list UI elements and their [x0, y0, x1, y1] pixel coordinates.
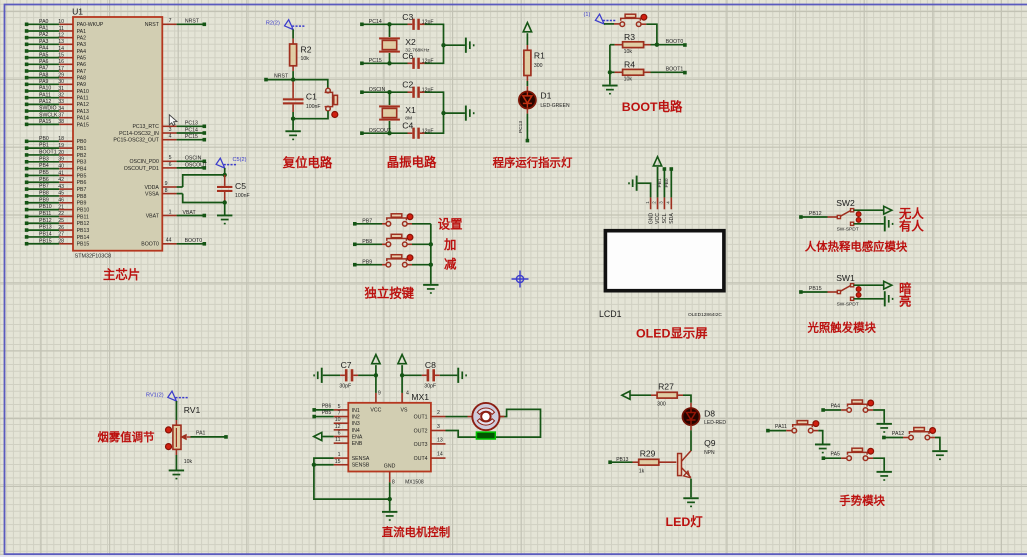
U1 pin 33 PA12 / net PA12 with wire — [25, 99, 89, 108]
svg-text:PA2: PA2 — [39, 32, 49, 38]
node NRST — [264, 74, 295, 82]
svg-text:300: 300 — [657, 402, 666, 408]
U1 pin 31 PA10 / net PA10 with wire — [25, 86, 89, 95]
microcontroller U1 STM32F103C8 body — [72, 6, 162, 259]
wire C1 top — [292, 82, 294, 99]
svg-text:PB11: PB11 — [77, 214, 89, 220]
U1 pin 1 VBAT / net VBAT wire — [146, 209, 206, 219]
wire C6 to bus — [420, 62, 444, 64]
ground PA12 — [932, 450, 947, 460]
svg-text:100nF: 100nF — [306, 104, 321, 110]
label BOOT电路 — [622, 99, 683, 114]
svg-text:PA7: PA7 — [77, 69, 87, 75]
svg-text:37: 37 — [58, 112, 64, 118]
svg-text:PB4: PB4 — [39, 163, 49, 169]
svg-text:PB3: PB3 — [39, 156, 49, 162]
svg-text:VDDA: VDDA — [144, 185, 159, 191]
svg-text:加: 加 — [443, 237, 456, 252]
svg-text:IN1: IN1 — [352, 408, 360, 414]
switch SW1 SW-SPDT — [836, 273, 861, 308]
svg-text:BOOT电路: BOOT电路 — [622, 99, 683, 114]
ground MX1 — [382, 511, 397, 521]
wire C7 to VCC node — [353, 374, 376, 376]
svg-text:PA1: PA1 — [196, 431, 206, 437]
MX1 pin 5 IN1 — [334, 404, 360, 414]
push button PB7 — [386, 214, 413, 226]
label 主芯片 — [103, 267, 140, 282]
svg-text:SW-SPDT: SW-SPDT — [837, 302, 859, 308]
svg-text:PB0: PB0 — [77, 139, 87, 145]
wire C1 bottom to node — [291, 104, 295, 121]
label LED灯 — [666, 514, 704, 529]
svg-text:OSCIN_PD0: OSCIN_PD0 — [129, 159, 159, 165]
svg-text:PB13: PB13 — [39, 225, 52, 231]
label 有人 — [899, 218, 924, 233]
svg-text:PA6: PA6 — [39, 59, 49, 65]
svg-text:PB9: PB9 — [77, 201, 87, 207]
svg-text:PB8: PB8 — [39, 191, 49, 197]
svg-text:3: 3 — [437, 424, 440, 430]
power terminal VCC arrow — [372, 355, 380, 378]
svg-text:3: 3 — [169, 127, 172, 133]
svg-text:PA2: PA2 — [77, 36, 87, 42]
ground PA11 — [815, 444, 830, 454]
wire R4 left — [610, 71, 623, 73]
svg-text:PB14: PB14 — [77, 235, 90, 241]
svg-text:C2: C2 — [402, 80, 413, 90]
U1 pin 13 PA3 / net PA3 with wire — [25, 39, 86, 48]
svg-text:VSSA: VSSA — [145, 192, 159, 198]
svg-text:BOOT0: BOOT0 — [666, 39, 684, 45]
svg-text:5: 5 — [338, 404, 341, 410]
svg-text:PB1: PB1 — [657, 178, 663, 187]
svg-text:46: 46 — [58, 198, 64, 204]
U1 pin 30 PA9 / net PA9 with wire — [25, 79, 86, 88]
svg-text:PA1: PA1 — [39, 26, 49, 32]
U1 pin 26 PB13 / net PB13 with wire — [25, 225, 90, 234]
capacitor C8 30pF — [424, 360, 436, 390]
wire Q9 emitter to ground — [690, 479, 692, 498]
svg-text:PC13: PC13 — [518, 121, 524, 133]
svg-text:R4: R4 — [624, 60, 635, 70]
U1 pin 41 PB5 / net PB5 with wire — [25, 170, 87, 179]
wire node to ground — [292, 119, 294, 131]
MX1 pin 4 VS top — [402, 375, 409, 403]
svg-text:PB1: PB1 — [77, 146, 87, 152]
svg-text:26: 26 — [58, 225, 64, 231]
U1 pin 3 PC14-OSC32_IN / net PC14 wire — [119, 127, 206, 137]
svg-text:OSCOUT_PD1: OSCOUT_PD1 — [124, 166, 159, 172]
svg-text:18: 18 — [58, 136, 64, 142]
net PC13 wire below D1 — [518, 108, 529, 142]
svg-text:PB5: PB5 — [322, 410, 332, 416]
net PB9 wire — [353, 259, 386, 266]
wire PB9 button to bus — [407, 264, 431, 266]
U1 pin 27 PB14 / net PB14 with wire — [25, 232, 90, 241]
svg-text:X1: X1 — [405, 105, 416, 115]
label 亮 — [899, 293, 911, 308]
svg-text:X2: X2 — [405, 37, 416, 47]
svg-text:PA12: PA12 — [77, 102, 89, 108]
svg-text:PB6: PB6 — [322, 403, 332, 409]
svg-text:PB12: PB12 — [77, 221, 90, 227]
svg-text:2: 2 — [437, 410, 440, 416]
svg-text:42: 42 — [58, 177, 64, 183]
net PA4 wire — [821, 403, 847, 412]
svg-text:PC15-OSC32_OUT: PC15-OSC32_OUT — [113, 138, 159, 144]
svg-text:D1: D1 — [540, 91, 551, 101]
svg-text:PB10: PB10 — [77, 208, 90, 214]
resistor R3 10k — [623, 32, 644, 55]
svg-text:PA7: PA7 — [39, 66, 49, 72]
svg-text:1k: 1k — [639, 469, 645, 475]
svg-text:40: 40 — [58, 163, 64, 169]
svg-text:PA11: PA11 — [77, 96, 89, 102]
svg-text:PB5: PB5 — [77, 173, 87, 179]
svg-text:NPN: NPN — [704, 450, 715, 456]
svg-text:27: 27 — [58, 232, 64, 238]
svg-text:IN4: IN4 — [352, 428, 360, 434]
power terminal VS arrow — [398, 355, 406, 378]
svg-text:RV1(2): RV1(2) — [146, 393, 164, 399]
U1 pin 9 VDDA wire to C5 — [144, 175, 224, 191]
svg-text:亮: 亮 — [899, 293, 911, 308]
LED D1 LED-GREEN — [519, 91, 570, 109]
svg-text:BOOT1: BOOT1 — [666, 66, 684, 72]
svg-text:13: 13 — [58, 39, 64, 45]
wire PB7 button to bus — [407, 223, 431, 225]
svg-text:PA10: PA10 — [39, 86, 51, 92]
wire PA4 button to ground — [868, 410, 884, 423]
svg-text:C7: C7 — [341, 360, 352, 370]
svg-text:C5: C5 — [235, 181, 246, 191]
svg-text:PA3: PA3 — [77, 42, 87, 48]
svg-text:BOOT0: BOOT0 — [141, 242, 159, 248]
label 手势模块 — [839, 493, 885, 507]
svg-text:GND: GND — [648, 212, 654, 224]
svg-text:NRST: NRST — [274, 74, 289, 80]
svg-text:SWDIO: SWDIO — [39, 106, 57, 112]
svg-text:PB1: PB1 — [39, 143, 49, 149]
wire R2 bottom to node NRST — [292, 66, 294, 80]
ground PA4 — [877, 423, 892, 433]
svg-text:光照触发模块: 光照触发模块 — [807, 321, 877, 335]
svg-text:PC13: PC13 — [185, 121, 198, 127]
svg-text:复位电路: 复位电路 — [282, 155, 333, 170]
push button PA5 — [847, 448, 874, 460]
svg-text:PA12: PA12 — [892, 431, 904, 437]
svg-text:10k: 10k — [184, 459, 193, 465]
svg-text:SENSB: SENSB — [352, 463, 370, 469]
net PB6 wire to IN1 — [312, 403, 333, 411]
power terminal SW1 upper — [884, 281, 892, 289]
svg-text:PB0: PB0 — [664, 178, 670, 187]
wire to boot button — [604, 23, 620, 25]
U1 pin 4 PC15-OSC32_OUT / net PC15 wire — [113, 134, 206, 144]
U1 pin 12 PA2 / net PA2 with wire — [25, 32, 86, 41]
capacitor C3 12pF — [402, 12, 433, 30]
U1 pin 46 PB9 / net PB9 with wire — [25, 197, 87, 206]
svg-text:PB14: PB14 — [39, 232, 52, 238]
svg-text:34: 34 — [58, 106, 64, 112]
U1 pin 11 PA1 / net PA1 with wire — [25, 26, 86, 35]
U1 pin 5 OSCIN_PD0 / net OSCIN wire — [129, 155, 206, 165]
svg-text:300: 300 — [534, 63, 543, 69]
wire VS node to C8 — [402, 374, 427, 376]
wire R1 to D1 — [526, 76, 528, 93]
svg-text:10: 10 — [58, 19, 64, 25]
svg-text:LED灯: LED灯 — [666, 514, 704, 529]
svg-text:R29: R29 — [640, 449, 656, 459]
U1 pin 34 PA13 / net SWDIO with wire — [25, 106, 89, 115]
svg-text:OUT4: OUT4 — [414, 456, 428, 462]
svg-text:39: 39 — [58, 157, 64, 163]
svg-text:31: 31 — [58, 86, 64, 92]
svg-text:有人: 有人 — [899, 218, 924, 233]
svg-text:SW1: SW1 — [836, 273, 855, 283]
svg-text:PB7: PB7 — [77, 187, 87, 193]
svg-text:15: 15 — [335, 459, 341, 465]
U1 pin 19 PB1 / net PB1 with wire — [25, 143, 87, 152]
svg-text:PA0: PA0 — [39, 19, 49, 25]
wire reset button bottom — [293, 111, 328, 119]
wire PB8 button to bus — [407, 243, 431, 245]
svg-text:4: 4 — [406, 391, 409, 397]
svg-text:12: 12 — [58, 32, 64, 38]
svg-text:程序运行指示灯: 程序运行指示灯 — [493, 156, 573, 170]
MX1 pin 7 IN2 — [334, 411, 360, 421]
U1 pin 8 VSSA wire to C5 — [145, 188, 225, 203]
label 独立按键 — [364, 286, 415, 301]
U1 pin 6 OSCOUT_PD1 / net OSCOUT wire — [124, 162, 208, 172]
U1 pin 40 PB4 / net PB4 with wire — [25, 163, 87, 172]
MX1 pin 14 OUT4 — [414, 452, 446, 463]
wire C2 to bus — [420, 91, 444, 93]
svg-text:PA6: PA6 — [77, 62, 87, 68]
svg-text:11: 11 — [59, 26, 64, 32]
power terminal R27 — [622, 391, 630, 399]
svg-text:PA11: PA11 — [39, 92, 51, 98]
svg-text:PB6: PB6 — [77, 180, 87, 186]
svg-text:43: 43 — [58, 184, 64, 190]
svg-text:PA1: PA1 — [77, 29, 87, 35]
svg-text:PA15: PA15 — [77, 122, 89, 128]
net PC15 wire — [360, 58, 412, 66]
svg-text:PB13: PB13 — [77, 228, 90, 234]
svg-text:烟雾值调节: 烟雾值调节 — [98, 430, 156, 444]
net PA1 wiper wire — [191, 431, 228, 439]
wire boot button to BOOT0 node — [641, 24, 659, 47]
svg-text:OLED12864I2C: OLED12864I2C — [688, 312, 722, 318]
bus wire X2 right — [441, 24, 465, 65]
U1 pin 39 PB3 / net PB3 with wire — [25, 156, 87, 165]
U1 pin 45 PB8 / net PB8 with wire — [25, 191, 87, 200]
svg-text:PB11: PB11 — [39, 211, 51, 217]
svg-text:PB10: PB10 — [39, 204, 52, 210]
svg-text:28: 28 — [58, 239, 64, 245]
U1 pin 28 PB15 / net PB15 with wire — [25, 238, 90, 247]
svg-text:C4: C4 — [402, 121, 413, 131]
wire D8 to Q9 collector — [690, 425, 692, 451]
label 烟雾值调节 — [98, 430, 156, 444]
svg-text:VCC: VCC — [370, 408, 381, 414]
wire power to R27 — [630, 394, 657, 396]
wire RV1 bottom — [175, 449, 177, 469]
svg-text:6: 6 — [338, 431, 341, 437]
LCD1 pin 2 VCC stub — [652, 197, 662, 224]
crystal X1 8M — [379, 92, 416, 133]
svg-text:ENB: ENB — [352, 441, 363, 447]
label 暗 — [899, 281, 912, 296]
wire SW1 upper throw — [854, 284, 884, 286]
MX1 pin 6 ENA — [334, 431, 363, 441]
power terminal (1) — [584, 12, 617, 24]
wire left bus to R4 — [608, 45, 612, 85]
svg-text:PB15: PB15 — [39, 238, 52, 244]
potentiometer RV1 10k — [166, 405, 201, 465]
svg-text:9: 9 — [165, 181, 168, 187]
svg-text:PC14-OSC32_IN: PC14-OSC32_IN — [119, 131, 159, 137]
svg-text:RV1: RV1 — [184, 405, 201, 415]
svg-text:D8: D8 — [704, 409, 715, 419]
svg-text:PB15: PB15 — [77, 242, 90, 248]
push button PB8 — [386, 234, 413, 246]
U1 pin 29 PA8 / net PA8 with wire — [25, 72, 86, 81]
power terminal SW2 upper — [884, 206, 892, 214]
MX1 pin 11 ENB — [334, 437, 363, 447]
wire ENA — [322, 436, 334, 438]
label 设置 — [438, 216, 463, 231]
push button PA11 — [792, 421, 819, 433]
svg-text:38: 38 — [58, 119, 64, 125]
svg-text:SW-SPDT: SW-SPDT — [837, 227, 859, 233]
svg-text:R2(2): R2(2) — [266, 20, 280, 26]
svg-text:100nF: 100nF — [235, 193, 250, 199]
wire R2 top — [292, 30, 294, 45]
MX1 pin 8 GND wire — [390, 472, 395, 511]
svg-text:16: 16 — [58, 59, 64, 65]
svg-text:C1: C1 — [306, 91, 317, 101]
svg-text:29: 29 — [58, 72, 64, 78]
svg-text:SENSA: SENSA — [352, 456, 370, 462]
wire SW2 upper throw — [854, 209, 884, 211]
svg-text:PA9: PA9 — [77, 82, 87, 88]
U1 pin 44 BOOT0 / net BOOT0 wire — [141, 238, 206, 248]
label 直流电机控制 — [382, 525, 450, 539]
svg-text:PB7: PB7 — [39, 184, 49, 190]
LCD1 pin 4 SDA stub — [666, 197, 676, 223]
capacitor C1 100nF — [283, 91, 321, 109]
power terminal up R1 — [523, 23, 531, 32]
ground SW2 lower — [884, 216, 894, 231]
svg-text:41: 41 — [58, 170, 64, 176]
svg-text:VBAT: VBAT — [146, 213, 160, 219]
bus wire X1 right — [441, 91, 465, 134]
power terminal RV1(2) — [146, 391, 189, 401]
svg-text:10k: 10k — [624, 77, 633, 83]
label OLED显示屏 — [636, 326, 708, 340]
MX1 inner labels VCC VS GND — [370, 408, 408, 470]
OLED display LCD1 OLED12864I2C — [599, 231, 724, 319]
wire C4 to bus — [420, 132, 444, 134]
svg-text:1: 1 — [169, 209, 172, 215]
wire node to reset button — [293, 80, 328, 89]
ground PA5 — [877, 471, 892, 481]
svg-text:PA5: PA5 — [39, 52, 49, 58]
svg-text:OLED显示屏: OLED显示屏 — [636, 326, 708, 340]
ground buttons — [423, 284, 438, 294]
svg-text:PA8: PA8 — [39, 72, 49, 78]
wire SW2 lower throw — [854, 223, 884, 225]
svg-text:15: 15 — [58, 52, 64, 58]
svg-text:PB8: PB8 — [77, 194, 87, 200]
ground reset circuit — [285, 130, 300, 140]
wire motor right loop to OUT2 — [446, 409, 541, 437]
net PC14 wire — [360, 19, 412, 27]
label 减 — [444, 256, 457, 271]
svg-text:OSCIN: OSCIN — [185, 156, 202, 162]
svg-text:PA9: PA9 — [39, 79, 49, 85]
svg-text:PA14: PA14 — [77, 116, 89, 122]
MX1 pin 13 OUT3 — [414, 437, 446, 448]
svg-text:VCC: VCC — [655, 213, 661, 224]
mouse cursor — [169, 115, 177, 126]
label 复位电路 — [282, 155, 333, 170]
label 程序运行指示灯 — [493, 156, 573, 170]
MX1 pin 1 SENSA — [334, 452, 370, 462]
svg-text:PA4: PA4 — [831, 403, 841, 409]
resistor R2 10k — [290, 44, 312, 66]
node VDDA junction — [223, 168, 227, 186]
MX1 pin 10 IN3 — [334, 417, 360, 427]
svg-text:1: 1 — [338, 452, 341, 458]
U1 pin 2 PC13_RTC / net PC13 wire — [132, 120, 206, 130]
svg-text:17: 17 — [58, 66, 64, 72]
wire LCD1 GND — [638, 183, 651, 197]
ground X1 bus — [465, 106, 475, 121]
svg-text:C3: C3 — [402, 12, 413, 22]
svg-text:14: 14 — [58, 46, 64, 52]
svg-text:OUT2: OUT2 — [414, 428, 428, 434]
net PB5 wire to IN2 — [312, 410, 333, 418]
svg-text:独立按键: 独立按键 — [364, 286, 415, 301]
svg-text:7: 7 — [338, 411, 341, 417]
svg-text:OUT1: OUT1 — [414, 414, 428, 420]
svg-text:22: 22 — [58, 211, 64, 217]
U1 pin 10 PA0-WKUP / net PA0 with wire — [25, 19, 104, 28]
svg-text:PB4: PB4 — [77, 167, 87, 173]
svg-text:19: 19 — [58, 143, 64, 149]
svg-text:10: 10 — [335, 417, 341, 423]
svg-text:BOOT0: BOOT0 — [185, 238, 203, 244]
label 光照触发模块 — [807, 321, 877, 335]
svg-text:32: 32 — [58, 92, 64, 98]
svg-text:手势模块: 手势模块 — [839, 493, 885, 507]
svg-text:PB6: PB6 — [39, 177, 49, 183]
U1 pin 17 PA7 / net PA7 with wire — [25, 66, 86, 75]
svg-text:14: 14 — [437, 452, 443, 458]
svg-text:PA3: PA3 — [39, 39, 49, 45]
crystal X2 32.768KHz — [379, 24, 430, 63]
U1 pin 32 PA11 / net PA11 with wire — [25, 92, 89, 101]
ground below C5 — [217, 215, 232, 225]
wire R27 to D8 — [677, 395, 691, 408]
svg-text:PA10: PA10 — [77, 89, 89, 95]
U1 pin 25 PB12 / net PB12 with wire — [25, 218, 90, 227]
svg-text:MX1508: MX1508 — [405, 480, 424, 486]
wire C8 to ground — [435, 374, 457, 376]
svg-text:8: 8 — [392, 480, 395, 486]
